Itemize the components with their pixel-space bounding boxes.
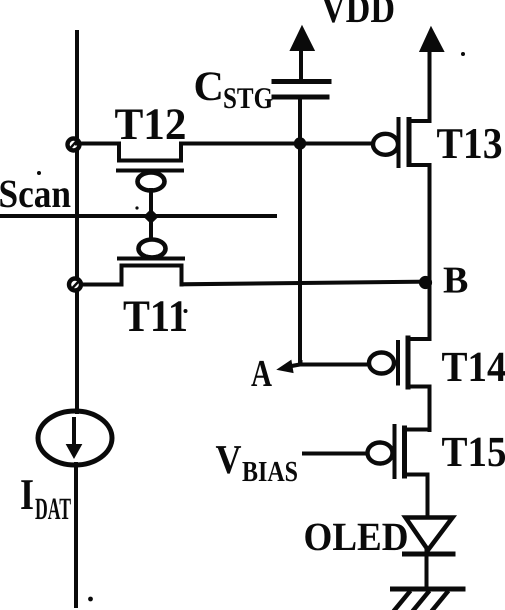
- power VDD arrow T13 branch: [421, 28, 444, 51]
- transistor T12: [77, 144, 375, 217]
- label T13: [437, 119, 503, 168]
- svg-text:I: I: [20, 470, 34, 519]
- transistor T11: [77, 216, 183, 285]
- wire Vbias lead: [304, 452, 369, 456]
- svg-text:VDD: VDD: [321, 0, 395, 31]
- label A: [251, 353, 272, 395]
- capacitor C_STG: [274, 82, 329, 365]
- label T14: [442, 344, 505, 391]
- label B: [443, 260, 468, 302]
- label Scan: [0, 171, 71, 216]
- svg-text:T15: T15: [442, 429, 505, 476]
- node scan gate junction: [143, 209, 159, 224]
- wire node B line: [182, 282, 428, 285]
- speck dot near T12 gate wire: [135, 206, 138, 209]
- label I_DAT: [20, 470, 71, 526]
- svg-text:BIAS: BIAS: [242, 456, 298, 488]
- transistor T14: [369, 282, 430, 430]
- svg-text:T11: T11: [123, 291, 188, 341]
- node B dot: [420, 277, 431, 288]
- speck dot near data line bottom: [88, 597, 93, 602]
- diode OLED: [405, 518, 454, 590]
- svg-text:Scan: Scan: [0, 171, 71, 216]
- transistor T15: [368, 426, 430, 516]
- node at T12 source on data line: [68, 139, 80, 151]
- svg-text:DAT: DAT: [35, 491, 71, 526]
- current source I_DAT: [38, 411, 112, 465]
- svg-text:T14: T14: [442, 344, 505, 391]
- node at T11 source on data line: [69, 279, 81, 291]
- speck dot right of T13 vdd arrow: [461, 52, 465, 56]
- label T11: [123, 291, 188, 341]
- node capacitor to gate wire junction: [294, 137, 306, 149]
- svg-text:T12: T12: [115, 99, 187, 149]
- svg-text:C: C: [194, 64, 224, 110]
- speck dot below B line: [184, 309, 188, 313]
- label VDD: [321, 0, 395, 31]
- node A arrow: [278, 361, 372, 373]
- label C_STG: [194, 64, 274, 115]
- wire data line upper segment: [75, 32, 79, 412]
- label T12: [115, 99, 187, 149]
- speck dot near scan label: [37, 171, 41, 175]
- svg-text:B: B: [443, 260, 468, 302]
- label OLED: [304, 514, 409, 559]
- label T15: [442, 429, 505, 476]
- label V_BIAS: [216, 436, 299, 488]
- svg-text:OLED: OLED: [304, 514, 409, 559]
- power VDD arrow capacitor branch: [291, 27, 314, 81]
- svg-text:A: A: [251, 353, 272, 395]
- wire data line lower segment: [74, 464, 78, 606]
- ground: [393, 589, 464, 610]
- svg-text:T13: T13: [437, 119, 503, 168]
- wire scan line: [0, 214, 275, 218]
- transistor T13: [373, 48, 430, 339]
- svg-text:V: V: [216, 436, 242, 482]
- svg-text:STG: STG: [223, 82, 273, 115]
